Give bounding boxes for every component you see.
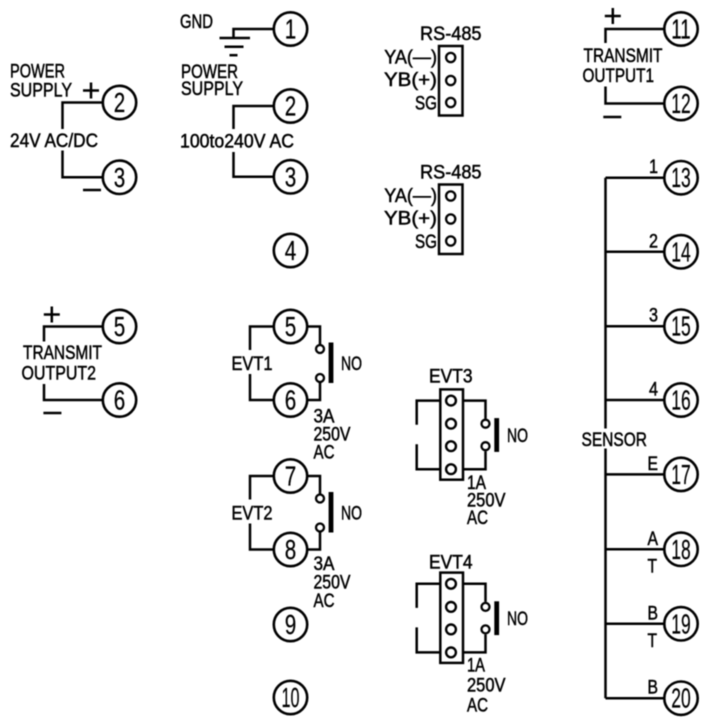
- plus sign (24V supply): [83, 83, 99, 99]
- wire terminal 13: [606, 176, 665, 179]
- terminal 15: [664, 310, 697, 343]
- svg-text:OUTPUT2: OUTPUT2: [22, 364, 97, 385]
- wire terminal 17: [606, 473, 665, 476]
- wire terminal 2 (mains): [234, 106, 275, 129]
- pin SG J2: [446, 236, 455, 245]
- contact bar NO EVT1: [329, 343, 334, 384]
- terminal 10: [274, 681, 307, 714]
- svg-text:TRANSMIT: TRANSMIT: [584, 46, 663, 67]
- wire left bracket bottom EVT1: [250, 374, 274, 400]
- svg-text:OUTPUT1: OUTPUT1: [583, 66, 655, 87]
- wire terminal 3 (mains): [234, 152, 275, 177]
- svg-text:12: 12: [671, 88, 691, 119]
- svg-text:2: 2: [649, 231, 658, 252]
- label POWER SUPPLY (100to240V): [181, 62, 243, 100]
- connector body J2: [439, 185, 463, 255]
- wire contact top EVT1: [308, 327, 321, 346]
- svg-text:8: 8: [285, 534, 297, 565]
- connector body EVT3: [440, 389, 463, 479]
- connector body EVT4: [440, 573, 463, 663]
- pin YB J2: [446, 214, 455, 223]
- svg-text:EVT2: EVT2: [232, 504, 273, 525]
- wire terminal 1 to ground: [234, 29, 274, 37]
- svg-text:NO: NO: [507, 609, 528, 630]
- wire terminal 3 (24V): [63, 151, 104, 178]
- terminal 8 (EVT2): [274, 533, 307, 566]
- svg-text:15: 15: [671, 311, 691, 342]
- pin 3 EVT4: [446, 625, 456, 635]
- svg-text:SG: SG: [415, 94, 437, 115]
- svg-text:7: 7: [285, 461, 297, 492]
- svg-text:9: 9: [285, 609, 297, 640]
- plus sign output1: [605, 8, 621, 24]
- contact point bottom EVT4: [482, 625, 490, 633]
- terminal 20: [664, 682, 697, 715]
- svg-text:T: T: [648, 631, 658, 652]
- wire terminal 14: [606, 251, 665, 254]
- connector body J1: [439, 46, 463, 116]
- wire contact top EVT3: [463, 401, 486, 419]
- svg-text:1A: 1A: [467, 656, 485, 677]
- svg-text:3: 3: [649, 306, 658, 327]
- wire contact bottom EVT1: [308, 382, 321, 400]
- contact point bottom EVT1: [316, 374, 324, 382]
- wire contact top EVT2: [308, 476, 321, 495]
- wire terminal 2 (24V): [63, 103, 104, 130]
- wire left bracket top EVT2: [250, 476, 274, 500]
- pin 4 EVT3: [446, 464, 456, 474]
- pin YA J1: [446, 53, 455, 62]
- wire terminal 6 (output2): [44, 384, 103, 400]
- terminal 3 (mains): [274, 160, 307, 193]
- svg-text:AC: AC: [467, 696, 488, 717]
- svg-text:B: B: [648, 678, 659, 699]
- contact point bottom EVT3: [482, 442, 490, 450]
- wire open lead bottom EVT3: [417, 444, 441, 469]
- svg-text:13: 13: [671, 162, 691, 193]
- svg-text:3: 3: [285, 161, 297, 192]
- pin 1 EVT3: [446, 396, 456, 406]
- wire terminal 16: [606, 399, 665, 402]
- wire terminal 12: [606, 87, 665, 104]
- svg-text:2: 2: [114, 87, 126, 118]
- svg-text:NO: NO: [507, 426, 528, 447]
- wire open lead top EVT4: [417, 584, 441, 608]
- wire open lead bottom EVT4: [417, 627, 441, 652]
- ground: [220, 38, 251, 55]
- wire contact bottom EVT3: [463, 451, 486, 469]
- minus sign output2: [43, 412, 61, 415]
- label TRANSMIT OUTPUT1: [583, 46, 663, 87]
- terminal 1: [274, 12, 307, 45]
- contact point top EVT2: [316, 495, 324, 503]
- wire terminal 11: [606, 29, 665, 43]
- svg-text:T: T: [648, 556, 658, 577]
- rating label 1A 250V AC EVT4: [467, 656, 506, 717]
- svg-text:10: 10: [282, 682, 300, 713]
- svg-text:6: 6: [285, 385, 297, 416]
- svg-text:SG: SG: [415, 232, 437, 253]
- rating label 3A 250V AC EVT2: [314, 554, 351, 612]
- svg-text:1: 1: [649, 157, 658, 178]
- terminal 6 (EVT1): [274, 383, 307, 416]
- svg-text:20: 20: [671, 683, 691, 714]
- contact bar NO EVT4: [494, 601, 499, 635]
- svg-text:1: 1: [285, 14, 297, 45]
- svg-text:3: 3: [114, 162, 126, 193]
- pin SG J1: [446, 98, 455, 107]
- svg-text:5: 5: [285, 311, 297, 342]
- minus sign (24V supply): [83, 189, 101, 192]
- svg-text:NO: NO: [341, 354, 362, 375]
- svg-text:16: 16: [671, 385, 691, 416]
- svg-text:100to240V AC: 100to240V AC: [180, 132, 294, 153]
- svg-text:4: 4: [649, 380, 658, 401]
- svg-text:YB(+): YB(+): [384, 70, 437, 91]
- svg-text:YA(—): YA(—): [384, 186, 437, 207]
- svg-text:EVT1: EVT1: [232, 354, 273, 375]
- svg-text:AC: AC: [314, 591, 335, 612]
- wire contact top EVT4: [463, 584, 486, 602]
- svg-text:SUPPLY: SUPPLY: [10, 81, 72, 102]
- contact bar NO EVT2: [329, 492, 334, 533]
- contact point top EVT1: [316, 345, 324, 353]
- terminal 2 (mains): [274, 89, 307, 122]
- terminal 3 (24V): [103, 161, 136, 194]
- svg-text:RS-485: RS-485: [420, 24, 482, 45]
- terminal 9: [274, 608, 307, 641]
- wire contact bottom EVT2: [308, 532, 321, 550]
- svg-text:11: 11: [671, 14, 691, 45]
- terminal 11: [664, 12, 697, 45]
- terminal 12: [664, 87, 697, 120]
- terminal 5 (EVT1): [274, 310, 307, 343]
- terminal 16: [664, 383, 697, 416]
- pin 3 EVT3: [446, 441, 456, 451]
- svg-text:SUPPLY: SUPPLY: [181, 79, 243, 100]
- wire terminal 15: [606, 325, 665, 328]
- svg-text:EVT4: EVT4: [429, 553, 473, 574]
- wire left bracket top EVT1: [250, 327, 274, 351]
- svg-text:B: B: [648, 603, 659, 624]
- svg-text:6: 6: [114, 385, 126, 416]
- rating label 1A 250V AC EVT3: [467, 473, 506, 529]
- pin 1 EVT4: [446, 579, 456, 589]
- terminal 4: [274, 234, 307, 267]
- svg-text:14: 14: [671, 236, 691, 267]
- terminal 7 (EVT2): [274, 459, 307, 492]
- terminal 18: [664, 533, 697, 566]
- svg-text:19: 19: [671, 608, 691, 639]
- wire terminal 19: [606, 623, 665, 626]
- contact point bottom EVT2: [316, 524, 324, 532]
- pin YA J2: [446, 191, 455, 200]
- pin YB J1: [446, 76, 455, 85]
- svg-text:24V AC/DC: 24V AC/DC: [10, 131, 98, 152]
- terminal 5 (output2): [103, 310, 136, 343]
- svg-text:2: 2: [285, 91, 297, 122]
- svg-text:250V: 250V: [467, 676, 506, 697]
- wire sensor bus lower: [604, 449, 607, 699]
- svg-text:YB(+): YB(+): [384, 209, 437, 230]
- svg-text:RS-485: RS-485: [420, 163, 482, 184]
- contact point top EVT3: [482, 420, 490, 428]
- svg-text:NO: NO: [341, 504, 362, 525]
- rating label 3A 250V AC EVT1: [314, 407, 351, 464]
- svg-text:AC: AC: [314, 443, 335, 464]
- svg-text:SENSOR: SENSOR: [582, 430, 648, 451]
- wire left bracket bottom EVT2: [250, 524, 274, 550]
- terminal 14: [664, 235, 697, 268]
- pin 2 EVT4: [446, 602, 456, 612]
- terminal 19: [664, 607, 697, 640]
- plus sign output2: [44, 307, 60, 323]
- svg-text:YA(—): YA(—): [384, 48, 437, 69]
- label TRANSMIT OUTPUT2: [22, 343, 103, 385]
- svg-text:E: E: [648, 454, 659, 475]
- label POWER SUPPLY (24V): [10, 62, 72, 102]
- wire open lead top EVT3: [417, 401, 441, 425]
- wire contact bottom EVT4: [463, 634, 486, 652]
- wire terminal 5 (output2): [44, 327, 103, 342]
- contact point top EVT4: [482, 603, 490, 611]
- terminal 13: [664, 161, 697, 194]
- terminal 6 (output2): [103, 383, 136, 416]
- wire terminal 20: [606, 697, 665, 700]
- svg-text:TRANSMIT: TRANSMIT: [23, 343, 102, 364]
- svg-text:5: 5: [114, 311, 126, 342]
- terminal 2 (24V): [103, 86, 136, 119]
- svg-text:POWER: POWER: [10, 62, 65, 83]
- wire terminal 18: [606, 548, 665, 551]
- svg-text:18: 18: [671, 534, 691, 565]
- svg-text:A: A: [648, 529, 659, 550]
- svg-text:17: 17: [671, 459, 691, 490]
- minus sign output1: [603, 116, 621, 119]
- contact bar NO EVT3: [494, 418, 499, 452]
- wire sensor bus upper: [604, 178, 607, 429]
- pin 2 EVT3: [446, 419, 456, 429]
- pin 4 EVT4: [446, 648, 456, 658]
- terminal 17: [664, 458, 697, 491]
- svg-text:AC: AC: [467, 508, 488, 529]
- svg-text:EVT3: EVT3: [429, 367, 473, 388]
- svg-text:4: 4: [285, 235, 297, 266]
- svg-text:GND: GND: [180, 12, 213, 33]
